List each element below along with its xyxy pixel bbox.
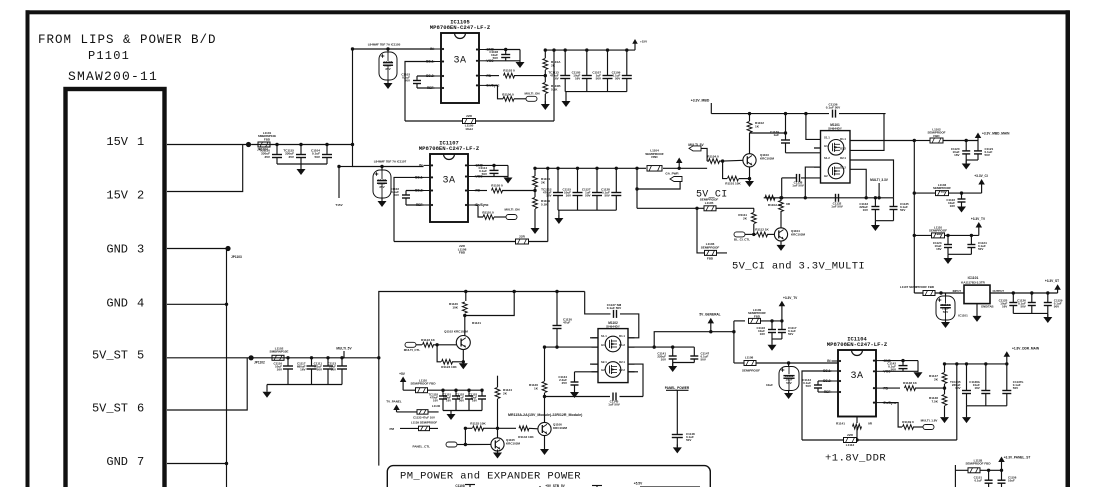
svg-text:MP8708EN-C247-LF-Z: MP8708EN-C247-LF-Z [827, 341, 888, 348]
ground Q1105 emitter [493, 450, 502, 459]
capacitor C1142 [887, 361, 907, 372]
wire IC1105 output bus [544, 48, 635, 51]
label fragment STB [545, 484, 565, 488]
svg-text:10V: 10V [955, 386, 960, 390]
mosfet1 right pin D2.1 [840, 156, 846, 160]
svg-text:7.5K: 7.5K [931, 400, 938, 404]
frame top border [26, 10, 1070, 14]
capacitor C1138 series gate [782, 174, 821, 198]
svg-text:MULTI_1.8V: MULTI_1.8V [921, 419, 938, 423]
ground row2 cap [957, 204, 966, 213]
wire row1 caps rail [966, 159, 978, 161]
svg-text:R1139 0: R1139 0 [902, 420, 914, 424]
ground IC1105 GND/VCC [516, 50, 525, 69]
frame right border [1066, 10, 1071, 487]
wire IC1101 caps rail [1013, 312, 1048, 314]
capacitor C1102 between BS.2 and REF [390, 187, 423, 205]
capacitor C1117 on 5V_ST [297, 356, 317, 384]
svg-text:5.1K: 5.1K [541, 203, 548, 207]
net flag MULTI_ON IC1107 [504, 208, 519, 220]
svg-text:SI4944DY: SI4944DY [606, 325, 620, 329]
svg-text:SMBRNP10E: SMBRNP10E [270, 350, 289, 354]
wire IC1105 output caps rail [565, 91, 627, 93]
net stub T15V [335, 165, 352, 207]
mosfet pair M1101 SI4944DY [821, 123, 851, 183]
big label +1.8V_DDR [825, 453, 886, 465]
capacitor C1108 [489, 50, 510, 61]
svg-text:50V: 50V [482, 172, 487, 176]
svg-text:R1106 0: R1106 0 [502, 93, 514, 97]
wire branch to 5V_CI label [697, 208, 727, 253]
svg-text:L1140: L1140 [432, 404, 441, 408]
wire MULTI_5V bus middle [377, 290, 585, 360]
net tag PANEL_CTL [413, 442, 468, 449]
wire 15V pin1 to junction [167, 144, 246, 146]
svg-text:22R: 22R [847, 433, 853, 437]
inductor L111B bead [965, 459, 991, 473]
wire IC1107 GND pin [475, 164, 509, 167]
wire IC1101 output row [990, 292, 1058, 294]
label PANEL_POWER [665, 386, 690, 390]
wire IC1105 GND pin right [486, 48, 521, 51]
svg-text:0.1uF 50V: 0.1uF 50V [826, 106, 841, 110]
wire GND pin7 [167, 462, 228, 465]
junction GND3 dot JP1103 [225, 246, 242, 259]
svg-text:FBD: FBD [754, 314, 761, 318]
resistor R110A feedback upper [543, 50, 561, 76]
svg-text:FROM LIPS & POWER B/D: FROM LIPS & POWER B/D [38, 33, 217, 47]
svg-text:S2.1: S2.1 [601, 360, 607, 364]
mosfet Q-D bottom [605, 362, 621, 378]
svg-text:15V: 15V [106, 135, 128, 149]
svg-text:4: 4 [137, 297, 144, 311]
capacitor C1115 IC1107 output [562, 167, 582, 211]
wire Q1103 collector link [750, 131, 788, 134]
svg-text:G2: G2 [601, 368, 605, 372]
svg-text:16V: 16V [760, 332, 765, 336]
svg-text:50V: 50V [596, 77, 601, 81]
svg-text:10uF: 10uF [1008, 479, 1015, 483]
capacitor C1117b [778, 321, 797, 339]
ground IC1104 caps [962, 406, 971, 423]
power flag +15V [632, 39, 647, 50]
wire 5V tree vertical [732, 321, 735, 363]
svg-text:1uF 50V: 1uF 50V [608, 403, 620, 407]
capacitor TC1112 IC1107 output [541, 167, 563, 211]
mosfet1 left pin S1.1 [824, 135, 830, 139]
op-amp regulator IC1107 [415, 141, 489, 223]
ground IC1107 output caps [554, 210, 563, 224]
capacitor C1143 between BS.2 and REF [802, 378, 831, 392]
wire FET left pin3 to gate bus [805, 167, 820, 198]
svg-text:3: 3 [137, 243, 144, 257]
svg-text:R1103 0: R1103 0 [503, 69, 515, 73]
capacitor C1116 on 5V_ST [273, 356, 293, 384]
resistor R1125 pullup [465, 422, 492, 431]
svg-text:KRC102M: KRC102M [791, 233, 806, 237]
mosfet1 right pin D1.1 [840, 137, 846, 141]
ground row3 caps [944, 254, 953, 264]
ground IC1105 output caps [562, 92, 571, 107]
ground L1109 caps [768, 339, 777, 351]
wire 5V_CI rail [637, 207, 754, 210]
wire FET right D1 row [850, 139, 916, 142]
svg-text:KA1117B3-3.3TR: KA1117B3-3.3TR [961, 280, 986, 284]
svg-text:10V: 10V [433, 398, 438, 402]
svg-text:L1139 SEMIPROOF: L1139 SEMIPROOF [411, 421, 437, 425]
svg-text:D1.2: D1.2 [840, 146, 846, 150]
capacitor C1123 row3 [933, 234, 952, 255]
wire 15V bus to IC area [251, 144, 352, 146]
resistor R1126 Q1106 collector chain [529, 347, 547, 422]
ground Q1104 emitter [777, 241, 786, 251]
connector pin 4 label GND [106, 297, 144, 311]
wire L111B row [955, 465, 1001, 487]
svg-text:D1.1: D1.1 [840, 137, 846, 141]
title P1101 [88, 49, 130, 63]
svg-text:KRC102M: KRC102M [506, 442, 521, 446]
wire to MULTI_5V flag [679, 167, 707, 169]
svg-text:FBD: FBD [459, 251, 466, 255]
title SMAW200-11 [68, 69, 158, 84]
capacitor C1137b IC1104 output [1002, 362, 1023, 406]
capacitor C1133 on MULTI_3.3V [859, 196, 879, 221]
svg-text:15V: 15V [106, 189, 128, 203]
svg-text:R1122 1K: R1122 1K [421, 338, 436, 342]
svg-text:6: 6 [137, 402, 144, 416]
svg-text:50V: 50V [615, 77, 620, 81]
capacitor fragment bottom 2 [592, 485, 602, 487]
svg-text:25V: 25V [562, 381, 567, 385]
resistor R1105 on FB line [475, 184, 537, 193]
capacitor C1109 IC1105 output [612, 48, 632, 91]
wire FET2 right row3 to gate2 [628, 364, 643, 396]
svg-text:G2: G2 [824, 174, 828, 178]
svg-text:IC1101: IC1101 [968, 276, 979, 280]
big label 5V_CI [696, 190, 728, 201]
inductor L1110c bead [410, 379, 436, 393]
wire 5V_ST line [251, 357, 379, 359]
wire IC1104 output bus [943, 362, 1007, 365]
svg-text:FBD: FBD [264, 137, 271, 141]
svg-text:L1112: L1112 [846, 443, 855, 447]
mosfet2 left pin S2.1 [601, 360, 607, 364]
svg-text:16V: 16V [277, 368, 282, 372]
svg-text:1uF 50V: 1uF 50V [831, 205, 843, 209]
svg-text:R1123 10K: R1123 10K [441, 365, 457, 369]
svg-text:L1107 SEMIPROOF FBD: L1107 SEMIPROOF FBD [900, 285, 935, 289]
svg-text:1uF: 1uF [773, 133, 779, 137]
wire PANEL_POWER drop [676, 390, 678, 434]
svg-text:0.1uF: 0.1uF [974, 479, 982, 483]
wire FET right row3 down [850, 160, 894, 198]
frame left border [26, 10, 30, 487]
svg-text:KRC102M: KRC102M [553, 426, 568, 430]
ground IC1107 GND [504, 165, 513, 183]
capacitor TC1145 IC1104 output [950, 362, 971, 406]
wire IC1107 bottom loop [394, 241, 548, 243]
capacitor C1136 series on bus [826, 103, 886, 118]
wire bus corner down to C1137 [585, 292, 611, 314]
inductor L1140 bead [417, 404, 441, 414]
svg-text:1uF 50V: 1uF 50V [792, 184, 804, 188]
capacitor C1151 5V_PM [443, 389, 460, 411]
capacitor C1155 [998, 470, 1017, 487]
power flag +3.3V_ST [1045, 279, 1061, 293]
wire GND pin3 [167, 248, 228, 250]
svg-text:50V: 50V [806, 384, 811, 388]
svg-text:GND: GND [106, 455, 128, 469]
net label MULTI_3.3V [870, 178, 889, 200]
wire 3.3V vertical distribution [913, 141, 916, 294]
svg-text:22R: 22R [519, 235, 525, 239]
net flag MULTI_1.8V [921, 419, 938, 430]
resistor R1101 base-emitter Q1103 [723, 161, 750, 185]
svg-text:7: 7 [137, 455, 144, 469]
mosfet1 pin stubs [814, 148, 821, 167]
wire FET left pin2 stub [814, 147, 821, 149]
svg-text:SEMIPROOF: SEMIPROOF [700, 198, 719, 202]
inductor L1107 bead [900, 285, 935, 296]
svg-text:35V: 35V [264, 155, 270, 159]
wire MULTI_3.3V gate bus [764, 196, 894, 199]
svg-text:+1.8V_DDR_MAIN: +1.8V_DDR_MAIN [1012, 347, 1040, 351]
net tag MULTI_CTL Q1102 base [404, 342, 422, 352]
capacitor C1113 on 5V_ST [327, 356, 347, 384]
connector pin 1 label 15V [106, 135, 144, 149]
inductor L1105 on loop [463, 114, 476, 131]
svg-text:SEMIPROOF FBD: SEMIPROOF FBD [965, 462, 991, 466]
svg-text:47uF: 47uF [563, 321, 570, 325]
svg-text:D2.2: D2.2 [840, 165, 846, 169]
inductor L1112 on loop [844, 433, 857, 447]
label input net IC1107 [374, 160, 407, 164]
svg-text:MULTI_5V: MULTI_5V [336, 347, 352, 351]
junction JP1102 dot [249, 355, 266, 364]
wire GND vertical bus [226, 249, 228, 488]
capacitor C1114 [478, 165, 498, 176]
wire FET2 right row4 stub [628, 371, 638, 373]
label MR115A module [508, 413, 583, 417]
inductor L1108 on loop [458, 235, 529, 255]
inductor L1106 bead [701, 242, 720, 261]
ground C1119 [766, 383, 793, 399]
svg-text:R1141: R1141 [836, 422, 845, 426]
svg-text:5: 5 [137, 349, 144, 363]
svg-text:R110A 0R: R110A 0R [768, 203, 783, 207]
op-amp regulator IC1104 [823, 337, 897, 417]
wire C1139 to box [786, 152, 821, 154]
wire bus drop to FET S1 [806, 114, 821, 140]
resistor R1120 Q1102 collector chain [449, 292, 467, 316]
power flag +1.8V_DDR_MAIN [1004, 347, 1040, 364]
ground IC1107 ladder [531, 225, 540, 234]
svg-text:S1.2: S1.2 [824, 156, 830, 160]
svg-text:R1112 1K: R1112 1K [755, 228, 769, 232]
power flag +3.3V_CI [974, 174, 987, 193]
ground Q1103 emitter [745, 167, 754, 187]
svg-text:16V: 16V [472, 398, 477, 402]
svg-text:R1101 10K: R1101 10K [725, 182, 741, 186]
resistor R1138 on FB line [883, 381, 947, 391]
resistor R1109 feedback lower [533, 191, 551, 229]
svg-text:PANEL_CTL: PANEL_CTL [413, 445, 431, 449]
wire 5V_CI drop [635, 168, 638, 208]
resistor R1110 En/Sync [475, 205, 507, 219]
capacitor C1132 series on gate bus [831, 194, 843, 209]
wire Q1102 collector [465, 316, 481, 336]
resistor R1122 Q1102 base [421, 338, 456, 347]
ground C1101 [378, 198, 387, 207]
capacitor C1129 IC1101 out [1044, 291, 1063, 313]
resistor R1141 under IC1104 [836, 417, 873, 441]
op-amp regulator IC1105 [426, 20, 500, 104]
wire FET2 left pin1 stub [590, 337, 598, 339]
svg-text:2: 2 [137, 189, 144, 203]
wire 5V_ST caps ground rail [267, 384, 342, 386]
svg-text:S1.1: S1.1 [824, 135, 830, 139]
wire IC1104 BAL.1 to loop [802, 371, 832, 440]
resistor R1124 chain [495, 376, 512, 438]
capacitor C1152 5V_PM [456, 389, 473, 411]
capacitor C1119 electrolytic [779, 361, 799, 390]
svg-text:16V: 16V [954, 153, 959, 157]
wire FET2 caps rail [673, 362, 695, 364]
svg-text:JP1102: JP1102 [254, 361, 265, 365]
resistor R1106 En/Sync [486, 85, 527, 101]
svg-text:SEMIPROOF: SEMIPROOF [701, 245, 720, 249]
resistor R1147 feedback upper [929, 364, 947, 388]
svg-text:R1138 1K: R1138 1K [903, 381, 918, 385]
net row PM2 [390, 427, 439, 431]
svg-text:50V: 50V [405, 79, 410, 83]
label fragment C1108b [455, 484, 464, 488]
capacitor C1104 on 15V bus [311, 143, 332, 164]
capacitor C1148 [672, 432, 695, 447]
inductor L1103b bead row2 [914, 183, 981, 196]
capacitor C1125 IC1101 out [999, 291, 1018, 313]
svg-text:MULTI_ON: MULTI_ON [504, 208, 519, 212]
power flag +3.3V_MBD_MAIN [975, 132, 1010, 141]
capacitor C1139 [770, 114, 790, 153]
resistor R1103 on FB line [486, 69, 548, 79]
svg-text:35V: 35V [288, 155, 294, 159]
svg-text:16V: 16V [331, 368, 336, 372]
wire vertical 5V_ST feed [378, 358, 380, 466]
connector pin 7 label GND [106, 455, 144, 469]
resistor R1123 base-emitter [437, 345, 463, 369]
inductor L1109 bead [734, 308, 782, 323]
svg-text:+3.3V_MBD: +3.3V_MBD [691, 99, 710, 103]
svg-text:50V: 50V [317, 368, 322, 372]
wire IC1104 VCC pin [883, 370, 919, 372]
svg-text:16V: 16V [974, 386, 979, 390]
svg-text:GND/TAB: GND/TAB [981, 305, 994, 309]
wire 5V_PM row [403, 389, 483, 391]
net flag GA_PWR [637, 172, 682, 190]
svg-text:50V: 50V [701, 358, 706, 362]
ground 15V caps [297, 164, 306, 175]
wire GND pin4 [167, 303, 228, 306]
svg-text:D1.2: D1.2 [619, 343, 625, 347]
svg-text:3A: 3A [453, 55, 466, 66]
svg-text:+3.3V_CI: +3.3V_CI [974, 174, 987, 178]
svg-text:D1.1: D1.1 [619, 334, 625, 338]
inductor L1104 ferrite bead [637, 149, 679, 172]
PM_POWER and EXPANDER POWER block [387, 466, 710, 492]
svg-text:P1101: P1101 [88, 49, 130, 63]
svg-text:G1: G1 [824, 144, 828, 148]
resistor R1112 Q1104 base [755, 228, 774, 237]
bead L1101 on 15V bus [258, 142, 270, 147]
svg-text:G1: G1 [601, 343, 605, 347]
wire FET2 right row2 to 5V rail [628, 330, 734, 347]
capacitor C1127 IC1107 output [582, 167, 602, 211]
svg-text:FBD: FBD [935, 232, 942, 236]
svg-text:5V_CI and 3.3V_MULTI: 5V_CI and 3.3V_MULTI [732, 261, 865, 273]
capacitor TC1110 on 15V bus [259, 143, 282, 164]
svg-text:SI4944DY: SI4944DY [828, 127, 842, 131]
svg-text:50V: 50V [459, 398, 464, 402]
ground row1 caps [962, 160, 971, 170]
svg-text:L846MF 7BF 7A IC1107: L846MF 7BF 7A IC1107 [374, 160, 407, 164]
power flag +3.3V_TV2 [779, 296, 798, 323]
ground FET2 caps arrow [668, 363, 677, 373]
svg-text:Q1102 KRC102M: Q1102 KRC102M [444, 330, 468, 334]
mosfet2 left pin S1.1 [601, 334, 607, 338]
svg-text:+1.8V_DDR: +1.8V_DDR [825, 453, 886, 465]
label input net IC1105 [368, 43, 401, 47]
resistor R110A on gate bus [765, 195, 783, 207]
capacitor fragment bottom 1 [465, 484, 475, 487]
svg-text:SEMIPROOF: SEMIPROOF [742, 369, 760, 373]
svg-text:10V: 10V [661, 358, 666, 362]
power flag +3.3V_PANEL_ST [998, 456, 1030, 472]
wire IC1105 input bus [351, 47, 435, 50]
svg-text:BL_CI_CTL: BL_CI_CTL [734, 238, 750, 242]
wire IC1105 feedback tall [553, 50, 555, 121]
connector pin 6 label 5V_ST [92, 402, 144, 416]
svg-text:+3.3V_PANEL_ST: +3.3V_PANEL_ST [1004, 456, 1031, 460]
wire IC1107 BAL.1 to loop [394, 177, 424, 241]
wire 15V pin2 up to 15V bus [167, 145, 243, 192]
capacitor C1136b IC1104 output [969, 362, 990, 406]
svg-text:FBD: FBD [707, 257, 714, 261]
net label MULTI_5V on 5V_ST [336, 347, 352, 358]
svg-text:50V: 50V [1013, 386, 1018, 390]
net flag MULTI_5V [688, 143, 707, 161]
power flag +5V_GENERAL [699, 313, 720, 332]
capacitor C1106 electrolytic [379, 47, 397, 80]
ground C1144 [941, 314, 968, 329]
capacitor C1107 IC1105 output [592, 48, 612, 91]
svg-text:16V: 16V [1002, 305, 1007, 309]
resistor R1148 feedback lower [929, 388, 947, 417]
svg-text:5V_ST: 5V_ST [92, 402, 128, 416]
svg-text:+3.3V_TV: +3.3V_TV [971, 217, 986, 221]
svg-text:5.1K: 5.1K [551, 88, 558, 92]
svg-text:50V: 50V [900, 208, 905, 212]
svg-text:50V: 50V [686, 438, 691, 442]
resistor R1142 Q1105-Q1106 link [492, 426, 538, 439]
svg-text:PM_POWER and EXPANDER POWER: PM_POWER and EXPANDER POWER [400, 470, 581, 482]
capacitor C1116b [756, 319, 776, 339]
svg-text:KRC102M: KRC102M [760, 157, 775, 161]
ground IC1101 tab [973, 304, 982, 322]
label C1133b [413, 416, 435, 420]
svg-text:50V: 50V [943, 310, 949, 314]
wire Q1105 base [465, 443, 491, 445]
